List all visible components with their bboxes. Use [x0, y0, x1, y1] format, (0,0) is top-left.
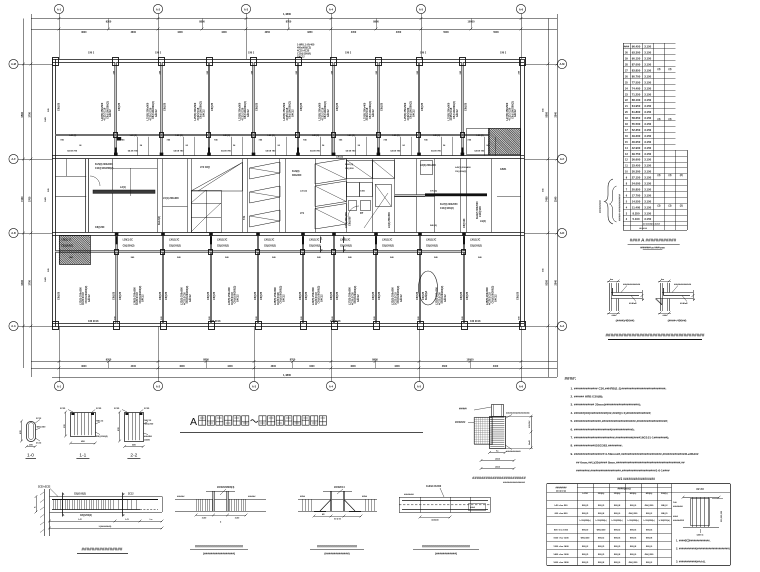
svg-text:3.150: 3.150: [644, 51, 651, 55]
svg-text:A-5: A-5: [419, 7, 424, 11]
svg-text:3.150: 3.150: [644, 199, 651, 203]
svg-text:4400: 4400: [227, 365, 233, 368]
svg-text:C8@200(2): C8@200(2): [455, 171, 467, 173]
svg-text:50 b 50: 50 b 50: [334, 519, 342, 521]
svg-text:74.400: 74.400: [632, 86, 641, 90]
svg-text:54:08 780: 54:08 780: [174, 149, 185, 152]
svg-text:bw: bw: [610, 279, 613, 281]
svg-text:G4C12: G4C12: [514, 109, 517, 117]
svg-text:C8@25: C8@25: [57, 102, 60, 111]
svg-text:2540: 2540: [554, 112, 557, 118]
svg-text:C40 2: C40 2: [155, 52, 162, 55]
svg-text:4450: 4450: [351, 31, 357, 34]
svg-text:## ####(m) ####: ## ####(m) ####: [643, 223, 661, 225]
svg-text:Φ8@0: Φ8@0: [630, 504, 637, 507]
svg-text:C8@25: C8@25: [213, 291, 216, 300]
svg-text:71.250: 71.250: [632, 92, 641, 96]
svg-text:Φ8@0: Φ8@0: [614, 561, 621, 564]
svg-text:C8@25: C8@25: [517, 291, 520, 300]
svg-text:1445: 1445: [44, 276, 47, 282]
svg-text:A-1: A-1: [57, 384, 62, 388]
svg-text:L40 (2): L40 (2): [336, 156, 343, 159]
svg-text:Φ8@2: Φ8@2: [582, 545, 589, 548]
svg-text:7400: 7400: [21, 196, 24, 202]
svg-text:93.300: 93.300: [632, 51, 641, 55]
svg-text:(##############): (##############): [324, 551, 349, 555]
svg-text:################: ################: [82, 547, 123, 552]
corridor left wall: [85, 159, 87, 232]
door swing arcs: [348, 206, 359, 217]
svg-text:L40 (2): L40 (2): [268, 134, 275, 137]
svg-text:G4C12: G4C12: [142, 294, 145, 302]
svg-text:########:m ####:mm: ########:m ####:mm: [640, 247, 665, 250]
wall right: [520, 59, 522, 327]
svg-text:L30(1) 2C: L30(1) 2C: [123, 240, 134, 242]
svg-text:##############: ##############: [674, 284, 692, 286]
svg-text:200,200,200: 200,200,200: [721, 510, 723, 522]
svg-text:4400: 4400: [309, 365, 315, 368]
stair triangle: [191, 162, 243, 191]
svg-text:54:08 780: 54:08 780: [266, 149, 277, 152]
svg-text:L40 (2): L40 (2): [433, 134, 440, 137]
svg-text:9300: 9300: [545, 279, 548, 285]
svg-text:LT2 C8@: LT2 C8@: [200, 166, 211, 169]
svg-text:L40 (2): L40 (2): [176, 134, 183, 137]
svg-text:C8@200(2): C8@200(2): [470, 246, 482, 248]
svg-text:####: ####: [663, 315, 669, 317]
svg-text:Φ8@5: Φ8@5: [598, 545, 605, 548]
svg-text:(####<400##): (####<400##): [668, 319, 687, 323]
wall corridor top: [52, 155, 524, 157]
left dimension ticks and labels: [22, 63, 25, 66]
svg-text:(3): (3): [658, 68, 661, 71]
svg-text:C40 2C18: C40 2C18: [88, 320, 99, 323]
svg-text:L30(1) 2C: L30(1) 2C: [470, 240, 481, 242]
dark beam fills in strip bottom band: [116, 236, 118, 244]
svg-text:C8@25: C8@25: [207, 291, 210, 300]
svg-text:Φ8@200: Φ8@200: [37, 425, 47, 428]
svg-text:############: ############: [506, 451, 521, 453]
svg-text:C40 2C18: C40 2C18: [470, 320, 481, 323]
svg-text:C8@25: C8@25: [381, 102, 384, 111]
svg-text:2. ###### HRB E30(Φ);: 2. ###### HRB E30(Φ);: [571, 395, 604, 399]
svg-text:L(########): L(########): [99, 526, 112, 528]
svg-text:2540: 2540: [554, 280, 557, 286]
svg-text:Φ8@8: Φ8@8: [630, 545, 637, 548]
svg-text:1445: 1445: [44, 196, 47, 202]
svg-text:C8@25: C8@25: [336, 291, 339, 300]
title underline: [180, 432, 423, 434]
svg-text:39.750: 39.750: [632, 152, 641, 156]
svg-text:3.150: 3.150: [644, 110, 651, 114]
svg-text:(3): (3): [669, 118, 672, 121]
svg-text:2C12: 2C12: [36, 418, 42, 420]
wall-beam anchorage detail 1: [607, 279, 645, 317]
svg-text:C8@25: C8@25: [165, 291, 168, 300]
svg-text:########8C8(4): ########8C8(4): [217, 486, 234, 489]
svg-text:2C25: 2C25: [144, 408, 150, 410]
elevation table: [623, 43, 688, 231]
stirrup table: [547, 484, 731, 566]
svg-text:####: ####: [624, 46, 630, 49]
svg-text:≥20d: ≥20d: [300, 495, 306, 498]
svg-text:4400: 4400: [131, 365, 137, 368]
braces left of table: [600, 179, 622, 224]
svg-text:83.850: 83.850: [632, 68, 641, 72]
svg-text:G4C12: G4C12: [400, 294, 403, 302]
corridor left rooms: [55, 176, 86, 178]
svg-text:########################: ########################: [422, 544, 470, 548]
svg-text:68.100: 68.100: [632, 98, 641, 102]
dimension frame top line 2: [31, 29, 557, 31]
svg-text:1-1: 1-1: [79, 452, 86, 458]
svg-text:C8@25: C8@25: [372, 291, 375, 300]
svg-text:2C25: 2C25: [96, 408, 102, 410]
svg-text:b 300|350(b): b 300|350(b): [628, 520, 639, 522]
svg-text:A-3: A-3: [252, 384, 257, 388]
svg-text:L30(1) 2C: L30(1) 2C: [217, 240, 228, 242]
svg-text:b 300|350(b): b 300|350(b): [659, 520, 670, 522]
svg-text:(3): (3): [658, 205, 661, 208]
svg-text:L40 (2): L40 (2): [476, 134, 483, 137]
svg-text:A-A: A-A: [560, 324, 565, 328]
svg-text:L40 (2): L40 (2): [348, 134, 355, 137]
svg-text:C8@200(2): C8@200(2): [309, 246, 321, 248]
dimension frame left lines: [23, 19, 25, 369]
svg-text:Φ8@200: Φ8@200: [629, 512, 639, 515]
svg-text:Φ8@5: Φ8@5: [614, 537, 621, 540]
svg-text:52.350: 52.350: [632, 128, 641, 132]
svg-text:80.700: 80.700: [632, 74, 641, 78]
svg-text:L40 (2): L40 (2): [130, 134, 137, 137]
svg-text:8700: 8700: [286, 21, 292, 24]
svg-text:C8@200(2): C8@200(2): [426, 246, 438, 248]
svg-text:54:08 780: 54:08 780: [431, 149, 442, 152]
columns on strip beam bottom band: [115, 250, 119, 255]
svg-text:Hn/6: Hn/6: [529, 439, 531, 445]
grid bubbles top row: [54, 4, 63, 13]
svg-text:######: ######: [529, 420, 531, 428]
svg-text:G4C12: G4C12: [189, 294, 192, 302]
svg-text:########: ########: [673, 506, 684, 508]
svg-text:3.150: 3.150: [644, 146, 651, 150]
columns on corridor bottom wall: [115, 233, 119, 236]
svg-text:8900: 8900: [372, 358, 378, 361]
svg-text:Φ8@5: Φ8@5: [598, 504, 605, 507]
svg-text:C8@25: C8@25: [299, 291, 302, 300]
svg-text:KL5(9) 300x600: KL5(9) 300x600: [95, 163, 113, 166]
svg-text:G4C12: G4C12: [291, 109, 294, 117]
svg-text:1,4800: 1,4800: [283, 12, 291, 16]
elevator small rooms: [347, 161, 373, 179]
svg-text:9300: 9300: [21, 279, 24, 285]
svg-text:Φ8@5: Φ8@5: [614, 545, 621, 548]
svg-text:C8@25: C8@25: [159, 291, 162, 300]
svg-text:54:08 780: 54:08 780: [310, 149, 321, 152]
svg-text:####: ####: [495, 466, 501, 468]
svg-text:Φ8@5: Φ8@5: [582, 553, 589, 556]
svg-text:C8@200(2): C8@200(2): [123, 246, 135, 248]
notes block: [565, 376, 699, 472]
columns on top wall: [53, 58, 59, 66]
svg-text:45°: 45°: [322, 513, 325, 516]
hatched shear wall bottom left: [59, 236, 91, 265]
svg-text:3.150: 3.150: [644, 128, 651, 132]
dimension frame right lines: [548, 19, 550, 378]
svg-text:8900: 8900: [373, 21, 379, 24]
svg-text:≤200 b: ≤200 b: [697, 534, 704, 537]
svg-text:1200 <hw 1400: 1200 <hw 1400: [553, 545, 569, 548]
svg-text:Φ8@200(4): Φ8@200(4): [96, 435, 108, 438]
svg-text:800 <hw 1000: 800 <hw 1000: [554, 528, 569, 531]
svg-text:G4C12: G4C12: [109, 109, 112, 117]
svg-text:C10@100: C10@100: [479, 206, 482, 217]
svg-text:L30(1) 2C: L30(1) 2C: [309, 240, 320, 242]
svg-text:A-D: A-D: [11, 231, 16, 235]
svg-text:C8@25: C8@25: [300, 102, 303, 111]
wall left: [52, 59, 54, 327]
svg-text:54:08 780: 54:08 780: [128, 149, 139, 152]
stirrup table notes column: [672, 487, 731, 563]
revision cloud: [419, 271, 438, 305]
svg-text:46.050: 46.050: [632, 140, 641, 144]
svg-text:240 (2): 240 (2): [430, 224, 437, 227]
svg-text:C8@25: C8@25: [256, 102, 259, 111]
svg-text:A-5: A-5: [417, 384, 422, 388]
svg-text:36.600: 36.600: [632, 158, 641, 162]
svg-text:3.150: 3.150: [644, 68, 651, 72]
svg-text:3.150: 3.150: [644, 92, 651, 96]
svg-text:##1 ##################: ##1 ##################: [617, 477, 655, 481]
svg-text:G4C12: G4C12: [202, 109, 205, 117]
svg-text:L2(1): L2(1): [120, 186, 126, 189]
columns on bottom wall: [53, 322, 59, 330]
svg-text:Φ8@5: Φ8@5: [582, 504, 589, 507]
dimension frame top line 1: [31, 18, 557, 20]
svg-text:L30(1) 2C: L30(1) 2C: [169, 240, 180, 242]
svg-text:G4C12: G4C12: [282, 294, 285, 302]
svg-text:3.150: 3.150: [644, 63, 651, 67]
svg-text:5000: 5000: [443, 31, 449, 34]
svg-text:8700: 8700: [290, 358, 296, 361]
svg-text:########################: ########################: [472, 475, 526, 480]
svg-text:33.450: 33.450: [632, 164, 641, 168]
top dimension ticks and labels: [58, 17, 61, 20]
svg-text:Φ8@200: Φ8@200: [144, 423, 154, 426]
svg-text:Φ8@2: Φ8@2: [614, 528, 621, 531]
svg-text:(####≥400##): (####≥400##): [616, 319, 635, 323]
svg-text:######: ######: [248, 496, 256, 498]
svg-text:1600 <hw 1800: 1600 <hw 1800: [553, 561, 569, 564]
svg-text:4. ######(XX)##########(##,###: 4. ######(XX)##########(##,####)(1:1)###…: [571, 411, 652, 415]
svg-text:G4C12: G4C12: [456, 109, 459, 117]
stair second block: [315, 159, 346, 229]
svg-text:87.000: 87.000: [632, 63, 641, 67]
svg-text:G4C12: G4C12: [297, 56, 305, 59]
svg-text:C40 2: C40 2: [345, 52, 352, 55]
svg-text:L6(2) 250x500: L6(2) 250x500: [388, 212, 391, 228]
svg-text:Φ8@0: Φ8@0: [614, 512, 621, 515]
added stirrup detail: [175, 486, 266, 523]
svg-text:A-2: A-2: [156, 7, 161, 11]
svg-text:A-4: A-4: [329, 384, 334, 388]
svg-text:4600: 4600: [81, 31, 87, 34]
svg-text:1445: 1445: [44, 116, 47, 122]
grid bubbles right column: [557, 59, 566, 68]
svg-text:(3): (3): [680, 174, 683, 177]
svg-text:3. ############(##d-d).: 3. ############(##d-d).: [676, 559, 706, 563]
svg-text:17.700: 17.700: [632, 193, 641, 197]
svg-text:500(b): 500(b): [661, 493, 668, 495]
svg-text:######~##############: ######~##############: [620, 193, 622, 221]
svg-text:C40 2C18: C40 2C18: [330, 320, 341, 323]
wall-beam anchorage detail 2: [655, 279, 696, 317]
section detail 1-1: [60, 408, 108, 459]
svg-text:(3): (3): [658, 118, 661, 121]
beam web bars detail: [399, 485, 491, 522]
svg-text:C8@25: C8@25: [254, 291, 257, 300]
svg-text:3.150: 3.150: [644, 158, 651, 162]
svg-text:Φ8@8: Φ8@8: [598, 512, 605, 515]
svg-text:######: ######: [431, 520, 439, 522]
grid bubbles left column: [9, 59, 18, 68]
svg-text:5000: 5000: [493, 31, 499, 34]
svg-text:Φ8@200: Φ8@200: [645, 553, 655, 556]
columns on intermediate beam: [114, 133, 118, 138]
svg-text:C8@200(2): C8@200(2): [217, 246, 229, 248]
beams top band vertical: [115, 62, 117, 155]
svg-text:C8@25: C8@25: [57, 291, 60, 300]
svg-text:DT: DT: [360, 212, 364, 215]
svg-text:h50 <hw 500: h50 <hw 500: [555, 504, 569, 507]
svg-text:77.550: 77.550: [632, 80, 641, 84]
wall top: [52, 59, 524, 61]
label block above plan: [297, 44, 315, 59]
svg-text:3.150: 3.150: [644, 122, 651, 126]
corridor beam gray segment: [395, 195, 425, 197]
svg-text:L9(2): L9(2): [480, 220, 486, 223]
corridor thick beam right: [425, 193, 487, 196]
svg-text:2-2: 2-2: [130, 452, 137, 458]
svg-text:C8@25: C8@25: [378, 291, 381, 300]
right dimension ticks and labels: [547, 63, 550, 66]
svg-text:C8@200(2): C8@200(2): [382, 246, 394, 248]
svg-text:A-A: A-A: [11, 324, 16, 328]
svg-text:4350: 4350: [265, 31, 271, 34]
svg-text:####Φ6: ####Φ6: [144, 435, 153, 438]
svg-text:Φ8@200: Φ8@200: [597, 528, 607, 531]
svg-text:C10@100(2): C10@100(2): [440, 207, 454, 210]
svg-text:KL7(9) 300x550: KL7(9) 300x550: [440, 203, 458, 206]
svg-text:C40 2: C40 2: [88, 52, 95, 55]
cantilever beam detail: [34, 486, 163, 536]
svg-text:8800: 8800: [199, 21, 205, 24]
svg-text:C8@200(2): C8@200(2): [169, 246, 181, 248]
corridor thick beam left: [93, 190, 155, 193]
svg-text:C8@200(2): C8@200(2): [61, 246, 73, 248]
svg-text:27.150: 27.150: [632, 176, 641, 180]
svg-text:TZ1: TZ1: [243, 215, 246, 220]
svg-text:(############): (############): [435, 551, 457, 555]
svg-text:####2C14: ####2C14: [334, 486, 345, 489]
svg-text:96.450: 96.450: [632, 45, 641, 49]
svg-text:A-F: A-F: [560, 157, 565, 161]
svg-text:G4C12: G4C12: [320, 294, 323, 302]
svg-text:Φ8@0: Φ8@0: [646, 545, 653, 548]
svg-text:4350: 4350: [307, 31, 313, 34]
escalator right of stair: [250, 162, 281, 227]
corridor horizontal beams: [55, 196, 86, 198]
svg-text:A: A: [190, 416, 197, 428]
svg-text:8. ############05SG363.#######: 8. ############05SG363.########;: [571, 444, 623, 448]
svg-text:L40 (2): L40 (2): [69, 134, 76, 137]
svg-text:bw: bw: [661, 279, 664, 281]
svg-text:## ## A: ## ## A: [639, 227, 647, 230]
svg-text:4600: 4600: [271, 365, 277, 368]
svg-text:11.400: 11.400: [632, 205, 641, 209]
svg-text:3.150: 3.150: [644, 182, 651, 186]
svg-text:4400: 4400: [221, 31, 227, 34]
svg-text:L30(1) 2C: L30(1) 2C: [426, 240, 437, 242]
svg-text:3.150: 3.150: [644, 187, 651, 191]
svg-text:C8@100(2): C8@100(2): [74, 494, 86, 496]
hanger bar detail: [298, 486, 377, 521]
svg-text:######200: ######200: [673, 520, 685, 522]
svg-text:GBZ1: GBZ1: [500, 168, 507, 171]
svg-text:Φ8@8: Φ8@8: [614, 504, 621, 507]
svg-text:@400: @400: [144, 439, 151, 442]
svg-text:3.150: 3.150: [644, 80, 651, 84]
beam top band intermediate horizontal: [55, 134, 488, 136]
svg-text:A-M: A-M: [11, 62, 16, 66]
svg-text:C40 2: C40 2: [420, 52, 427, 55]
svg-text:G4C12: G4C12: [88, 294, 91, 302]
svg-text:7. ########################,##: 7. ########################,##########(#…: [571, 436, 670, 440]
svg-text:2C12: 2C12: [128, 494, 134, 496]
svg-text:450(b): 450(b): [646, 492, 653, 495]
svg-text:G4C12: G4C12: [327, 109, 330, 117]
svg-text:4600: 4600: [350, 365, 356, 368]
svg-text:L40 (2): L40 (2): [312, 134, 319, 137]
svg-text:(3): (3): [669, 174, 672, 177]
svg-text:G4C12: G4C12: [357, 294, 360, 302]
svg-text:C8@25: C8@25: [112, 291, 115, 300]
svg-text:10000: 10000: [468, 21, 476, 24]
svg-text:N4C12: N4C12: [96, 419, 104, 422]
svg-text:Φ8@0: Φ8@0: [630, 553, 637, 556]
svg-text:G4C12: G4C12: [444, 294, 447, 302]
strip room dividers top band: [137, 137, 139, 156]
corridor room diagonal: [364, 193, 388, 228]
svg-text:A-6: A-6: [519, 7, 524, 11]
svg-text:A-2: A-2: [156, 384, 161, 388]
svg-text:##############################: ######################################: [605, 333, 704, 338]
svg-text:(bw(mm)): (bw(mm)): [556, 491, 566, 493]
svg-text:b 300|350(b): b 300|350(b): [612, 520, 623, 522]
svg-text:3.150: 3.150: [644, 193, 651, 197]
svg-text:##################: ##################: [503, 482, 526, 484]
svg-text:C40 2: C40 2: [500, 52, 507, 55]
svg-text:#### A ############: #### A ############: [630, 238, 677, 243]
svg-text:54:08 780: 54:08 780: [67, 149, 78, 152]
svg-text:(3): (3): [658, 174, 661, 177]
svg-text:3700: 3700: [28, 112, 31, 118]
svg-text:7400: 7400: [545, 196, 548, 202]
svg-text:b 300|350(b): b 300|350(b): [644, 520, 655, 522]
svg-text:2540: 2540: [554, 196, 557, 202]
svg-text:4600: 4600: [131, 31, 137, 34]
svg-text:600 <hw 800: 600 <hw 800: [555, 512, 569, 515]
